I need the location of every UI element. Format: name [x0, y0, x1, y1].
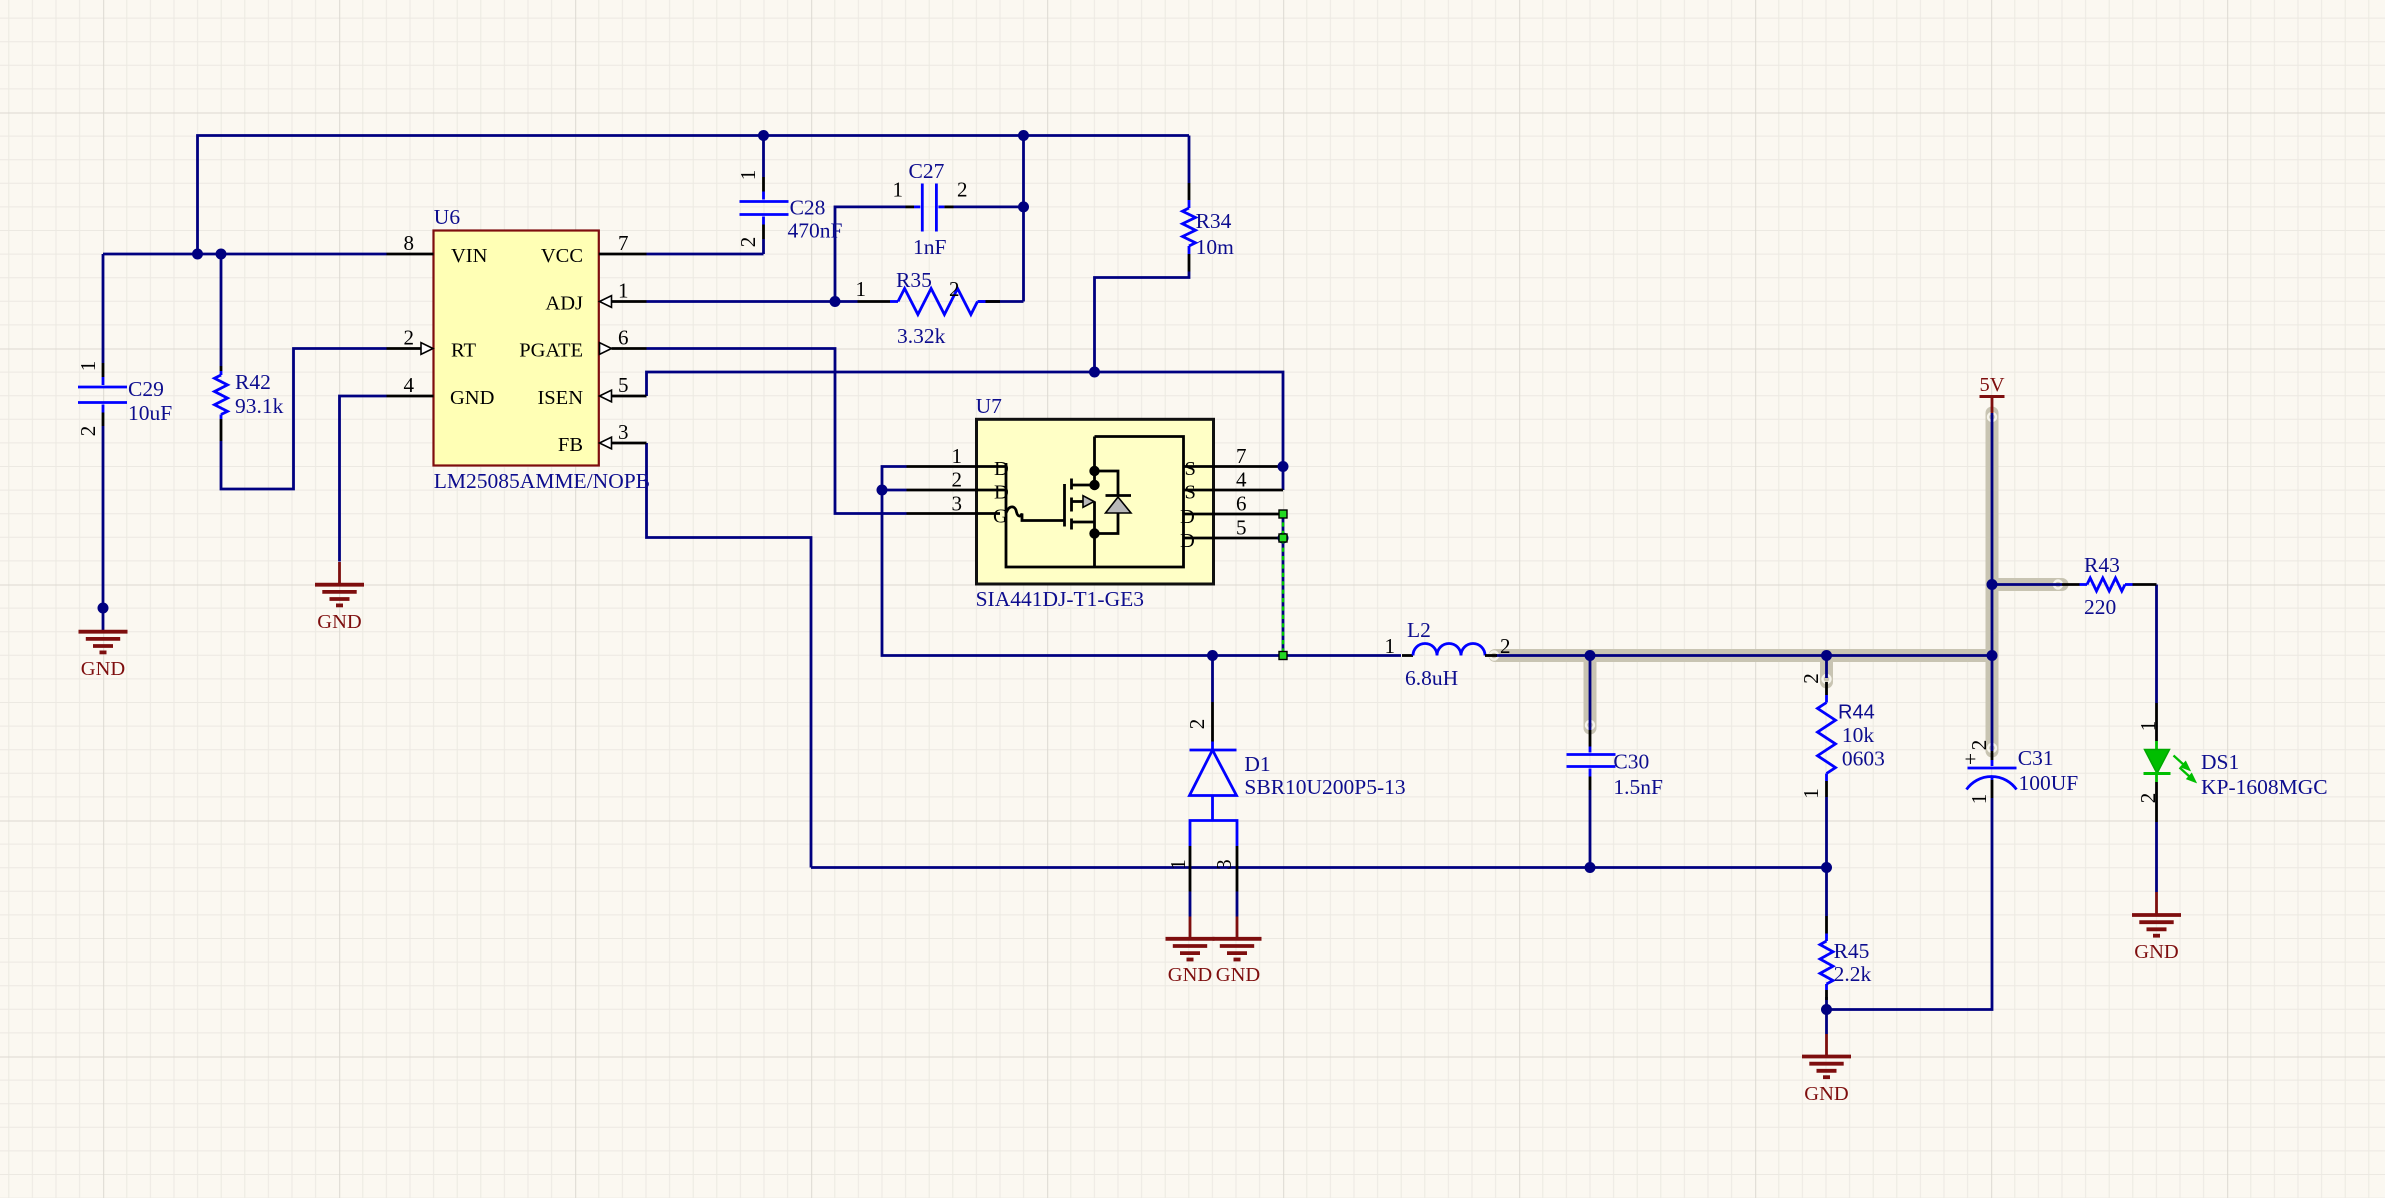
svg-text:3: 3 [1212, 859, 1236, 870]
svg-text:6: 6 [1236, 492, 1247, 516]
U6 pin 3 FB [600, 437, 647, 449]
power port GND D1 pin3 [1213, 917, 1262, 960]
svg-text:1: 1 [856, 277, 867, 301]
wire U7 drain pins to switch node [882, 467, 1401, 656]
svg-text:3: 3 [618, 420, 629, 444]
U6 pin 2 RT [387, 343, 434, 355]
svg-text:7: 7 [618, 231, 629, 255]
svg-text:2: 2 [957, 178, 968, 202]
wire R35 pin2 up [1022, 207, 1025, 302]
junction top bus C28 [758, 130, 769, 141]
wire ISEN net [647, 372, 1284, 490]
power port 5V [1980, 397, 2005, 414]
svg-text:7: 7 [1236, 444, 1247, 468]
junction ISEN R34 [1089, 367, 1100, 378]
U6 pin 4 GND [387, 395, 434, 398]
highlight end ring R43 [2054, 581, 2062, 589]
wire ADJ net [647, 300, 858, 303]
svg-text:R35: R35 [896, 268, 932, 292]
svg-text:93.1k: 93.1k [235, 394, 284, 418]
LED DS1 [2144, 703, 2195, 822]
svg-text:1: 1 [618, 279, 629, 303]
wire LED to ground [2155, 822, 2158, 892]
U6 pin 6 PGATE [600, 343, 647, 355]
svg-text:1: 1 [2136, 721, 2160, 732]
U7 pin 3 G [907, 512, 1001, 515]
U7 body diode triangle [1106, 497, 1132, 513]
highlight end ring R44 [1823, 675, 1831, 683]
svg-text:6.8uH: 6.8uH [1405, 666, 1458, 690]
svg-text:8: 8 [404, 231, 415, 255]
wire R45 junction to C31 [1827, 798, 1993, 1010]
wire C27 pin2 branch [954, 136, 1024, 207]
highlight end ring 5V top [1988, 413, 1996, 421]
U6 pin 5 ISEN [600, 390, 647, 402]
svg-text:2: 2 [404, 326, 415, 350]
resistor R35 [858, 289, 1001, 315]
svg-text:D: D [1180, 530, 1195, 552]
junction 5V R43 [1987, 579, 1998, 590]
svg-text:R44: R44 [1838, 702, 1875, 724]
svg-text:GND: GND [1216, 964, 1260, 986]
svg-text:R34: R34 [1196, 209, 1232, 233]
capacitor C28 [740, 177, 789, 239]
svg-text:D: D [994, 482, 1009, 504]
wire VIN horizontal [103, 253, 387, 256]
svg-text:ISEN: ISEN [537, 387, 583, 409]
wire C27 pin1 branch [835, 207, 906, 302]
svg-text:FB: FB [558, 434, 583, 456]
selected wire green dashes [1282, 514, 1284, 656]
power port GND D1 pin1 [1166, 917, 1215, 960]
svg-text:5: 5 [618, 373, 629, 397]
wire C28 pin2 stub [762, 239, 765, 254]
wire C29 top [102, 254, 105, 363]
net highlight band 5V vertical [1986, 413, 1999, 751]
wire R42 top [220, 254, 223, 366]
selection handle pin5 [1279, 534, 1287, 542]
svg-text:10k: 10k [1842, 723, 1875, 747]
svg-text:4: 4 [404, 373, 415, 397]
junction output C31 [1987, 650, 1998, 661]
svg-text:GND: GND [450, 387, 494, 409]
svg-text:VIN: VIN [451, 245, 488, 267]
U7 internal mosfet drawing [1006, 437, 1184, 568]
junction top bus C27 [1018, 130, 1029, 141]
svg-text:3.32k: 3.32k [897, 324, 946, 348]
svg-text:U7: U7 [976, 394, 1003, 418]
svg-text:SIA441DJ-T1-GE3: SIA441DJ-T1-GE3 [976, 587, 1144, 611]
diode D1 [1190, 702, 1238, 917]
wire input top bus [198, 136, 1190, 255]
svg-text:5: 5 [1236, 516, 1247, 540]
svg-text:5V: 5V [1979, 374, 2004, 396]
svg-text:C31: C31 [2018, 746, 2054, 770]
svg-text:LM25085AMME/NOPB: LM25085AMME/NOPB [434, 469, 650, 493]
net highlight band R44 stub [1820, 656, 1833, 683]
svg-text:10uF: 10uF [128, 401, 172, 425]
power port GND DS1 [2132, 892, 2181, 936]
capacitor C29 [78, 363, 127, 426]
wire R34 bottom to ISEN net [1095, 272, 1190, 373]
svg-text:1: 1 [1385, 634, 1396, 658]
U7 pin 1 D [907, 465, 1007, 468]
power port GND U6 pin4 [315, 562, 364, 605]
U6 pin 7 VCC [599, 253, 647, 256]
svg-text:GND: GND [1168, 964, 1212, 986]
junction R45 C31 [1821, 1004, 1832, 1015]
svg-text:2: 2 [949, 277, 960, 301]
svg-text:S: S [1185, 482, 1196, 504]
svg-text:2: 2 [76, 426, 100, 437]
svg-text:C30: C30 [1613, 750, 1649, 774]
svg-text:KP-1608MGC: KP-1608MGC [2201, 775, 2328, 799]
U7 pin 7 S [1184, 465, 1284, 468]
svg-text:1: 1 [736, 170, 760, 181]
wire R43 left [1992, 583, 2062, 586]
wire R35 pin2 stub [978, 300, 1024, 303]
junction U7 pin5 [1278, 533, 1289, 544]
net highlight band C30 stub [1584, 656, 1597, 729]
U7 mosfet junction dots [1089, 466, 1099, 476]
svg-text:2: 2 [736, 237, 760, 248]
svg-text:D: D [1180, 506, 1195, 528]
svg-text:GND: GND [81, 658, 125, 680]
wire U7 pins 6 5 selected vertical [1282, 514, 1285, 656]
svg-text:1: 1 [1967, 794, 1991, 805]
svg-text:3: 3 [952, 492, 963, 516]
selection handle switch node [1279, 652, 1287, 660]
wire output net under highlight [1496, 654, 1992, 657]
junction VIN vertical [192, 249, 203, 260]
U6 pin 1 ADJ [600, 296, 647, 308]
svg-text:10m: 10m [1196, 235, 1235, 259]
svg-text:220: 220 [2084, 595, 2116, 619]
transistor U7 body SIA441DJ [977, 419, 1214, 584]
junction bottom C30 [1585, 862, 1596, 873]
svg-text:C28: C28 [790, 196, 826, 220]
svg-text:1: 1 [893, 178, 904, 202]
junction ADJ C27 [830, 296, 841, 307]
junction C27 right [1018, 201, 1029, 212]
wire R45 bottom node [1825, 997, 1828, 1034]
junction VIN R42 [216, 249, 227, 260]
svg-text:1.5nF: 1.5nF [1613, 775, 1663, 799]
svg-text:2: 2 [952, 468, 963, 492]
svg-text:100UF: 100UF [2019, 771, 2079, 795]
svg-text:2.2k: 2.2k [1834, 962, 1872, 986]
wire PGATE to U7 gate [647, 349, 907, 514]
svg-text:L2: L2 [1407, 618, 1431, 642]
svg-text:R43: R43 [2084, 553, 2120, 577]
U7 pin 6 D [1184, 513, 1284, 516]
wire U7 pin2 stub [882, 489, 907, 492]
net highlight band output net horizontal [1495, 649, 1992, 662]
wire R44 bottom to R45 [1825, 797, 1828, 916]
resistor R34 [1183, 183, 1196, 272]
power port GND C29 [79, 608, 128, 652]
wire ground return bottom [811, 866, 1827, 869]
svg-text:6: 6 [618, 326, 629, 350]
svg-text:1: 1 [76, 361, 100, 372]
svg-text:PGATE: PGATE [519, 340, 583, 362]
power port GND R45 [1802, 1034, 1851, 1077]
net highlight band R43 stub [1992, 578, 2062, 591]
svg-text:2: 2 [1799, 673, 1823, 684]
svg-text:1: 1 [1166, 859, 1190, 870]
wire C28 pin1 from bus [762, 136, 765, 178]
wire VCC to C28 [647, 253, 764, 256]
svg-text:D1: D1 [1244, 752, 1270, 776]
svg-text:4: 4 [1236, 468, 1247, 492]
wire FB net vertical [647, 443, 812, 868]
svg-text:R45: R45 [1834, 939, 1870, 963]
selection handle pin6 [1279, 510, 1287, 518]
svg-text:1nF: 1nF [913, 235, 947, 259]
svg-text:1: 1 [952, 444, 963, 468]
svg-text:2: 2 [1967, 740, 1991, 751]
capacitor C27 [906, 184, 954, 232]
svg-text:GND: GND [1804, 1083, 1848, 1105]
svg-text:U6: U6 [434, 205, 461, 229]
U6 pin 8 VIN [387, 253, 434, 256]
capacitor C30 [1567, 730, 1616, 790]
svg-text:2: 2 [1185, 719, 1209, 730]
resistor R42 [215, 366, 228, 441]
junction output R44 [1821, 650, 1832, 661]
U7 pin 4 S [1184, 489, 1284, 492]
junction U7 pin2 [877, 485, 888, 496]
junction output C30 [1585, 650, 1596, 661]
highlight end ring C31 [1988, 744, 1996, 752]
highlight end ring L2 [1490, 652, 1498, 660]
op-amp U6 body LM25085 [434, 231, 599, 466]
resistor R45 [1820, 916, 1833, 1000]
resistor R43 [2062, 578, 2157, 591]
wire C30 bottom branch [1589, 790, 1592, 868]
U7 mosfet arrow [1083, 496, 1094, 508]
wire R42 bottom to RT [221, 349, 387, 490]
svg-text:2: 2 [2136, 793, 2160, 804]
wire C30 top branch [1589, 656, 1592, 731]
svg-text:1: 1 [1799, 788, 1823, 799]
svg-text:RT: RT [451, 340, 476, 362]
svg-text:VCC: VCC [541, 245, 583, 267]
junction bottom R44 [1821, 862, 1832, 873]
svg-text:G: G [993, 506, 1008, 528]
capacitor C31 polarized [1967, 751, 2017, 798]
svg-text:GND: GND [2134, 941, 2178, 963]
svg-text:ADJ: ADJ [545, 293, 583, 315]
svg-text:0603: 0603 [1842, 747, 1885, 771]
wire R43 right to LED [2155, 585, 2158, 704]
highlight end ring C30 [1586, 721, 1594, 729]
wire 5V vertical [1991, 413, 1994, 751]
svg-text:470nF: 470nF [788, 219, 843, 243]
svg-text:D: D [994, 458, 1009, 480]
junction C29 gnd [98, 603, 109, 614]
wire R34 top [1188, 136, 1191, 184]
junction switch node D1 [1207, 650, 1218, 661]
svg-text:C27: C27 [909, 159, 945, 183]
resistor R44 [1818, 682, 1836, 797]
wire D1 cathode branch [1211, 656, 1214, 703]
svg-text:2: 2 [1500, 634, 1511, 658]
svg-text:GND: GND [317, 611, 361, 633]
U7 pin 5 D [1184, 537, 1284, 540]
wire GND pin4 [340, 396, 387, 562]
svg-text:S: S [1185, 458, 1196, 480]
inductor L2 [1402, 644, 1497, 656]
svg-text:C29: C29 [128, 377, 164, 401]
svg-text:SBR10U200P5-13: SBR10U200P5-13 [1244, 775, 1405, 799]
junction U7 pin7 [1278, 461, 1289, 472]
wire R44 top branch [1825, 656, 1828, 679]
svg-text:R42: R42 [235, 370, 271, 394]
wire C29 bottom to ground [102, 426, 105, 608]
U7 pin 2 D [907, 489, 1007, 492]
svg-text:DS1: DS1 [2201, 750, 2239, 774]
